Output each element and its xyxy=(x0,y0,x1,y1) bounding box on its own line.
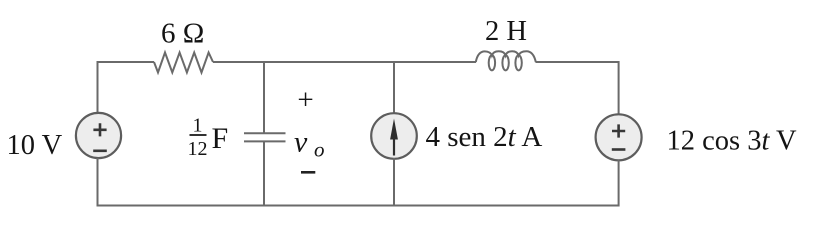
wire capacitor branch lower xyxy=(263,141,265,206)
wire bottom rail xyxy=(98,205,619,207)
svg-text:v: v xyxy=(294,126,308,159)
svg-text:F: F xyxy=(212,122,229,155)
svg-text:12 cos 3t V: 12 cos 3t V xyxy=(667,126,798,157)
wire left branch lower xyxy=(97,158,99,207)
voltage source V1 plus sign xyxy=(93,123,106,136)
svg-text:12: 12 xyxy=(188,138,208,160)
voltage source V2 circle xyxy=(596,114,642,160)
voltage source V1 minus sign xyxy=(93,150,107,153)
voltage source V2 plus sign xyxy=(612,124,625,137)
wire right branch upper xyxy=(618,61,620,115)
svg-text:2 H: 2 H xyxy=(485,16,527,47)
svg-text:+: + xyxy=(297,84,313,116)
wire right branch lower xyxy=(618,160,620,207)
svg-text:6 Ω: 6 Ω xyxy=(161,18,204,50)
inductor 2 H xyxy=(476,51,536,70)
label vo minus polarity xyxy=(301,171,315,174)
voltage source V1 circle xyxy=(76,113,121,158)
wire capacitor branch upper xyxy=(263,61,265,133)
current source I1 circle xyxy=(371,113,417,159)
wire current source branch lower xyxy=(393,158,395,207)
wire top-left segment xyxy=(98,61,155,63)
resistor 6 ohm xyxy=(154,53,213,73)
label capacitor value fraction 1/12 F xyxy=(188,115,229,160)
wire current source branch upper xyxy=(393,61,395,114)
svg-text:1: 1 xyxy=(193,115,203,137)
svg-text:4 sen 2t A: 4 sen 2t A xyxy=(426,121,543,153)
capacitor 1/12 F bottom plate xyxy=(244,140,286,142)
svg-text:o: o xyxy=(314,138,325,162)
wire top-middle segment xyxy=(213,61,476,63)
wire left branch upper xyxy=(97,61,99,114)
wire top-right segment xyxy=(536,61,619,63)
voltage source V2 minus sign xyxy=(612,148,626,151)
capacitor 1/12 F top plate xyxy=(244,132,286,134)
current source I1 arrow xyxy=(393,133,395,156)
svg-text:10 V: 10 V xyxy=(7,130,63,161)
